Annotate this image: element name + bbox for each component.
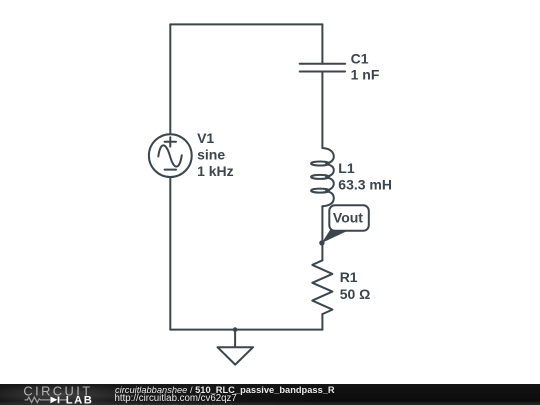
CircuitLab logo [0, 384, 100, 405]
wire left upper [169, 24, 171, 134]
node Vout flag [322, 205, 369, 243]
svg-text:63.3 mH: 63.3 mH [338, 177, 392, 193]
svg-text:Vout: Vout [333, 210, 363, 226]
svg-text:50 Ω: 50 Ω [340, 286, 371, 302]
svg-text:1 nF: 1 nF [351, 67, 380, 83]
svg-text:C1: C1 [351, 51, 369, 67]
svg-text:L1: L1 [338, 160, 355, 176]
wire inductor to resistor [321, 206, 323, 260]
voltage source V1 [149, 134, 192, 177]
capacitor C1 [300, 64, 345, 72]
logo resistor zigzag [25, 397, 50, 402]
wire bottom [170, 329, 322, 331]
svg-text:LAB: LAB [66, 395, 94, 405]
logo diode [50, 397, 57, 404]
resistor R1 [312, 260, 332, 314]
svg-text:sine: sine [197, 146, 225, 162]
wire right upper [321, 24, 323, 63]
ground [218, 330, 254, 365]
svg-text:1 kHz: 1 kHz [197, 163, 234, 179]
svg-text:R1: R1 [340, 269, 358, 285]
footer url line [115, 394, 237, 404]
wire resistor to bottom [321, 314, 323, 330]
wire top [170, 23, 322, 25]
wire left lower [169, 177, 171, 330]
inductor L1 [311, 148, 334, 206]
node dot Vout [319, 240, 324, 245]
svg-text:V1: V1 [197, 130, 214, 146]
junction dot bottom [233, 327, 238, 332]
wire cap to inductor [321, 72, 323, 149]
footer title line [115, 386, 335, 395]
